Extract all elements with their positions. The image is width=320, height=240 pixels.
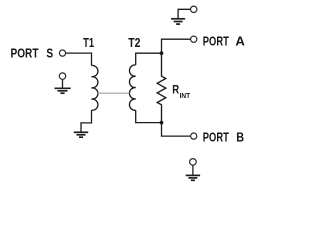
ground (reference, below PORT S)	[55, 73, 71, 93]
svg-text:T1: T1	[83, 35, 94, 50]
svg-text:T2: T2	[128, 35, 140, 50]
wire T2 bottom to node B	[136, 110, 162, 122]
label PORT B	[203, 129, 244, 144]
ground (T1)	[74, 132, 88, 137]
svg-text:S: S	[46, 46, 53, 61]
svg-text:R: R	[172, 83, 179, 97]
label PORT S	[11, 46, 54, 61]
node A junction dot	[160, 51, 164, 55]
ground (top right, above PORT A)	[171, 6, 197, 24]
wire T1 bottom to ground	[81, 110, 92, 132]
node B junction dot	[160, 121, 164, 125]
wire T2 top to node A	[136, 53, 162, 65]
svg-text:PORT: PORT	[11, 46, 39, 61]
terminal circle PORT A	[191, 36, 197, 42]
svg-text:INT: INT	[180, 91, 191, 100]
svg-text:PORT: PORT	[203, 33, 229, 48]
transformer T2 winding	[129, 65, 135, 110]
wire node A to PORT A	[162, 39, 191, 53]
wire node B to PORT B	[162, 123, 191, 137]
transformer T1 winding	[92, 65, 98, 110]
label R_INT	[172, 83, 190, 100]
terminal circle PORT B	[191, 133, 197, 139]
terminal circle PORT S	[59, 50, 65, 56]
resistor R_INT	[157, 53, 166, 122]
svg-text:A: A	[235, 33, 245, 48]
ground (bottom right, below PORT B)	[186, 159, 200, 181]
wire center tap T1 to T2	[98, 92, 130, 94]
label PORT A	[203, 33, 246, 48]
svg-text:B: B	[236, 129, 244, 144]
svg-text:PORT: PORT	[203, 129, 229, 144]
wire PORT S to T1 top	[66, 53, 92, 65]
